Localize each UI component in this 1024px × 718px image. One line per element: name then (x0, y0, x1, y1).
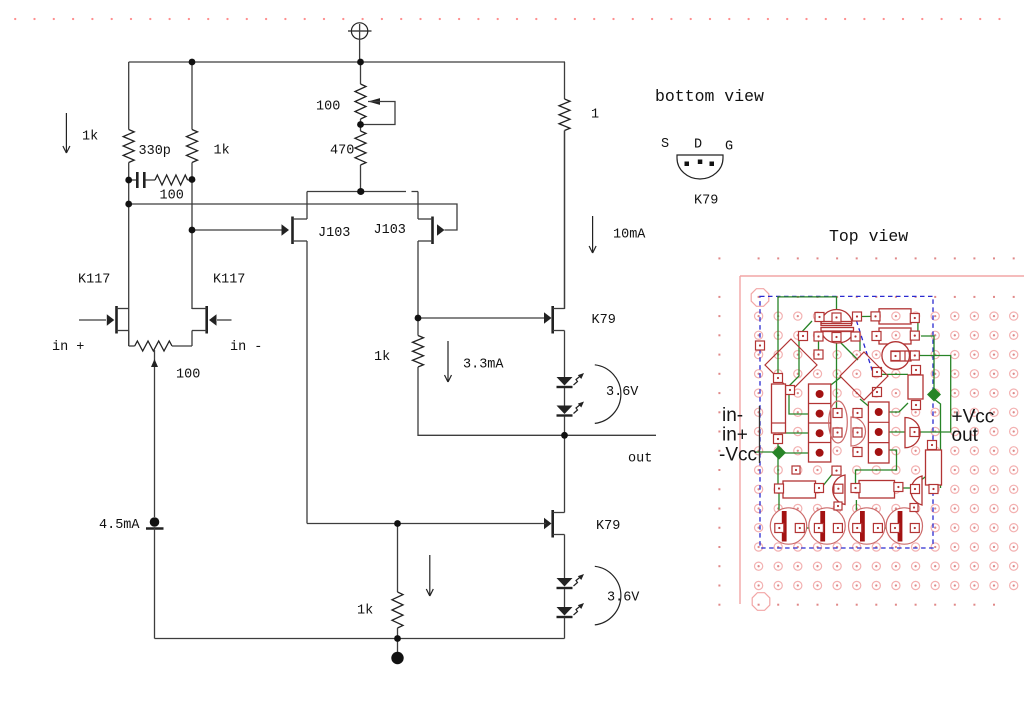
svg-text:out: out (952, 425, 979, 446)
svg-text:J103: J103 (374, 223, 406, 238)
svg-text:in+: in+ (722, 425, 748, 446)
svg-text:470: 470 (330, 144, 354, 159)
svg-text:out: out (628, 452, 652, 467)
svg-text:-Vcc: -Vcc (719, 445, 757, 466)
svg-text:K79: K79 (592, 313, 616, 328)
svg-text:bottom view: bottom view (655, 87, 764, 106)
svg-text:1k: 1k (214, 144, 230, 159)
svg-text:in -: in - (230, 340, 262, 355)
svg-text:K79: K79 (694, 194, 718, 209)
svg-text:3.6V: 3.6V (606, 385, 639, 400)
svg-text:K79: K79 (596, 519, 620, 534)
svg-text:100: 100 (176, 368, 200, 383)
svg-text:S: S (661, 137, 669, 152)
svg-text:100: 100 (160, 189, 184, 204)
svg-text:4.5mA: 4.5mA (99, 518, 140, 533)
svg-text:in +: in + (52, 340, 84, 355)
svg-text:1k: 1k (82, 130, 98, 145)
svg-text:330p: 330p (139, 144, 171, 159)
svg-text:in-: in- (722, 405, 743, 426)
svg-text:J103: J103 (318, 226, 350, 241)
svg-text:1k: 1k (374, 350, 390, 365)
svg-text:K117: K117 (213, 273, 245, 288)
svg-text:3.3mA: 3.3mA (463, 358, 504, 373)
svg-text:G: G (725, 140, 733, 155)
svg-text:K117: K117 (78, 273, 110, 288)
svg-text:3.6V: 3.6V (607, 591, 640, 606)
svg-text:10mA: 10mA (613, 228, 646, 243)
svg-text:1: 1 (591, 108, 599, 123)
svg-text:1k: 1k (357, 604, 373, 619)
svg-text:100: 100 (316, 100, 340, 115)
svg-text:Top view: Top view (829, 227, 908, 246)
svg-text:D: D (694, 138, 702, 153)
